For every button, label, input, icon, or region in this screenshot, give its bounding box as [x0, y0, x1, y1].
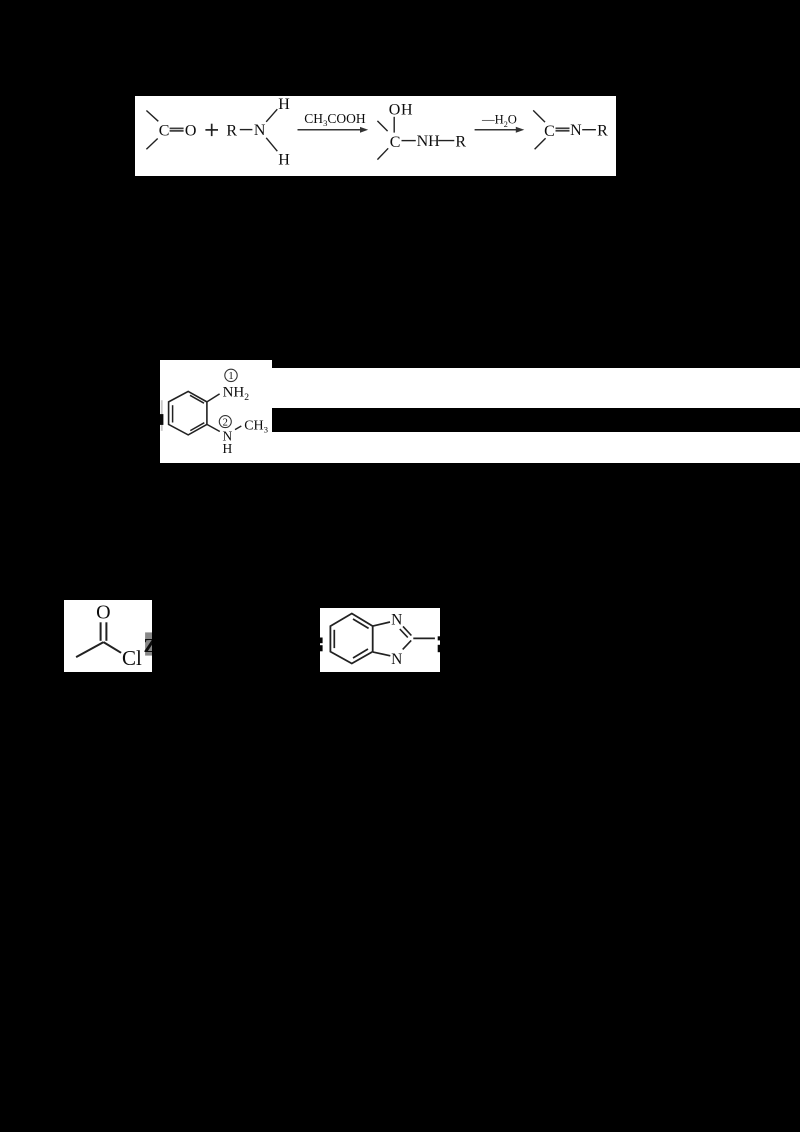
N-R bond	[582, 129, 596, 131]
white strip upper right	[271, 368, 800, 408]
ring double bond lower-right	[353, 649, 368, 658]
ketone C substituent bond lower-left	[146, 139, 157, 150]
svg-text:N: N	[391, 611, 402, 628]
ring double bond upper-right	[353, 619, 369, 628]
benzene ring	[168, 391, 206, 435]
N1=C2 double bond	[399, 626, 411, 637]
ring double bond lower-right	[190, 423, 204, 431]
NH-R bond	[438, 140, 454, 142]
svg-text:C: C	[390, 134, 401, 151]
bond ring to N(H)CH3	[206, 424, 219, 431]
bond ring to NH2	[206, 394, 219, 402]
fused benzene ring	[330, 613, 372, 663]
C=O double bond	[170, 128, 184, 131]
ring double bond left	[333, 630, 335, 648]
circled label 2	[219, 416, 231, 429]
svg-text:2: 2	[222, 417, 227, 428]
white strip lower right	[271, 432, 800, 463]
clipped character fragment at right edge	[143, 632, 156, 657]
carbinolamine C substituent bond lower-left	[377, 148, 388, 159]
2-methylbenzimidazole panel	[320, 608, 440, 672]
svg-text:OH: OH	[389, 101, 413, 118]
bond C2 to N3	[402, 640, 410, 649]
svg-text:Z: Z	[143, 635, 152, 657]
plus sign	[205, 124, 218, 136]
N-H bond lower	[266, 138, 277, 151]
svg-text:H: H	[278, 96, 290, 113]
svg-text:O: O	[185, 122, 197, 139]
svg-text:R: R	[597, 123, 608, 140]
svg-text:H: H	[222, 441, 232, 456]
svg-text:C: C	[544, 123, 555, 140]
svg-text:N: N	[391, 651, 402, 668]
bond to methyl	[76, 642, 103, 657]
svg-text:N: N	[254, 122, 266, 139]
C=O double bond vertical	[100, 622, 106, 641]
ketone C substituent bond upper-left	[146, 111, 158, 122]
clipped character fragments at right edge	[437, 636, 440, 652]
bond C2 to methyl	[413, 637, 435, 639]
N-H bond upper	[266, 109, 277, 122]
svg-text:CH3COOH: CH3COOH	[304, 111, 366, 128]
bond to Cl	[103, 642, 121, 653]
reaction arrow 2	[475, 127, 525, 133]
bond N to CH3	[235, 426, 241, 430]
svg-text:Cl: Cl	[122, 646, 142, 670]
carbinolamine C substituent bond upper-left	[377, 121, 387, 131]
svg-text:O: O	[96, 601, 110, 623]
reaction arrow 1	[298, 127, 369, 133]
clipped character fragments at left edge	[320, 637, 323, 651]
svg-text:1: 1	[228, 371, 233, 382]
svg-text:CH3: CH3	[244, 418, 268, 434]
circled label 1	[224, 369, 236, 382]
ring double bond left	[171, 405, 173, 422]
bond ring to N1	[372, 622, 389, 626]
svg-text:NH2: NH2	[222, 385, 249, 403]
reaction scheme panel (imine condensation)	[135, 96, 616, 176]
clipped character fragment at left edge	[160, 400, 163, 431]
R-N bond	[240, 129, 253, 131]
svg-text:C: C	[159, 122, 170, 139]
C-OH vertical bond	[393, 117, 395, 133]
svg-text:—H2O: —H2O	[481, 112, 517, 128]
svg-text:N: N	[570, 122, 582, 139]
C=N double bond	[556, 128, 570, 131]
imine C substituent bond upper-left	[533, 110, 545, 122]
acetyl chloride panel	[64, 600, 153, 672]
N-methyl-o-phenylenediamine panel	[160, 360, 272, 463]
bond ring to N3	[373, 652, 390, 656]
svg-text:NH: NH	[417, 133, 441, 150]
C-N bond	[402, 140, 416, 142]
svg-text:R: R	[455, 133, 466, 150]
ring double bond upper-right	[190, 395, 204, 403]
imine C substituent bond lower-left	[535, 138, 546, 149]
svg-text:R: R	[226, 123, 237, 140]
svg-text:H: H	[278, 152, 290, 169]
